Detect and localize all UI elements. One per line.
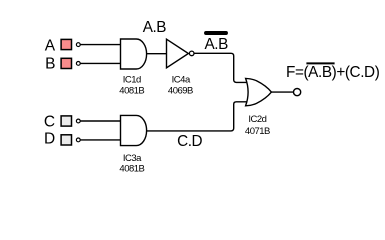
OR gate U4 (IC2d) (246, 78, 272, 105)
wire D input to AND2 (80, 139, 122, 141)
input terminal pin C (76, 119, 80, 123)
svg-text:B: B (45, 56, 55, 73)
inverter U2 bubble (189, 51, 194, 56)
wire B input to AND1 (80, 62, 122, 64)
svg-text:A: A (45, 38, 56, 55)
wire AND2 output to OR bottom input (146, 102, 248, 131)
wire NOT output to OR top input (194, 53, 248, 82)
svg-text:4071B: 4071B (245, 126, 270, 137)
svg-text:A.B: A.B (143, 19, 167, 36)
svg-text:F=(A.B)+(C.D): F=(A.B)+(C.D) (286, 64, 380, 81)
wire A input to AND1 (80, 44, 122, 46)
svg-text:4069B: 4069B (168, 85, 193, 96)
inverter U2 (IC4a) triangle (167, 39, 189, 68)
svg-text:4081B: 4081B (119, 164, 144, 175)
output terminal F (294, 89, 301, 96)
svg-text:IC3a: IC3a (123, 153, 142, 164)
logic switch A (high, pink) (61, 39, 71, 49)
logic switch D (low, gray) (61, 135, 71, 145)
AND gate U3 (IC3a) (121, 115, 147, 145)
svg-text:IC1d: IC1d (123, 75, 141, 86)
logic switch C (low, gray) (61, 116, 71, 126)
input terminal pin D (76, 138, 80, 142)
wire AND1 output to NOT input (146, 53, 167, 55)
wire C input to AND2 (80, 120, 122, 122)
wire OR output to terminal (271, 91, 293, 93)
logic switch B (high, pink) (61, 58, 71, 68)
output label overbar over (A.B) (306, 62, 334, 64)
input terminal pin A (76, 43, 80, 47)
svg-text:4081B: 4081B (119, 85, 144, 96)
svg-text:A.B: A.B (205, 36, 229, 53)
AND gate U1 (IC1d) (121, 39, 147, 69)
svg-text:D: D (44, 131, 55, 148)
net label NOT(A.B) overbar (206, 31, 226, 35)
svg-text:C: C (44, 114, 55, 131)
input terminal pin B (76, 62, 80, 66)
svg-text:IC2d: IC2d (248, 114, 266, 125)
svg-text:C.D: C.D (177, 133, 202, 150)
svg-text:IC4a: IC4a (172, 75, 191, 86)
